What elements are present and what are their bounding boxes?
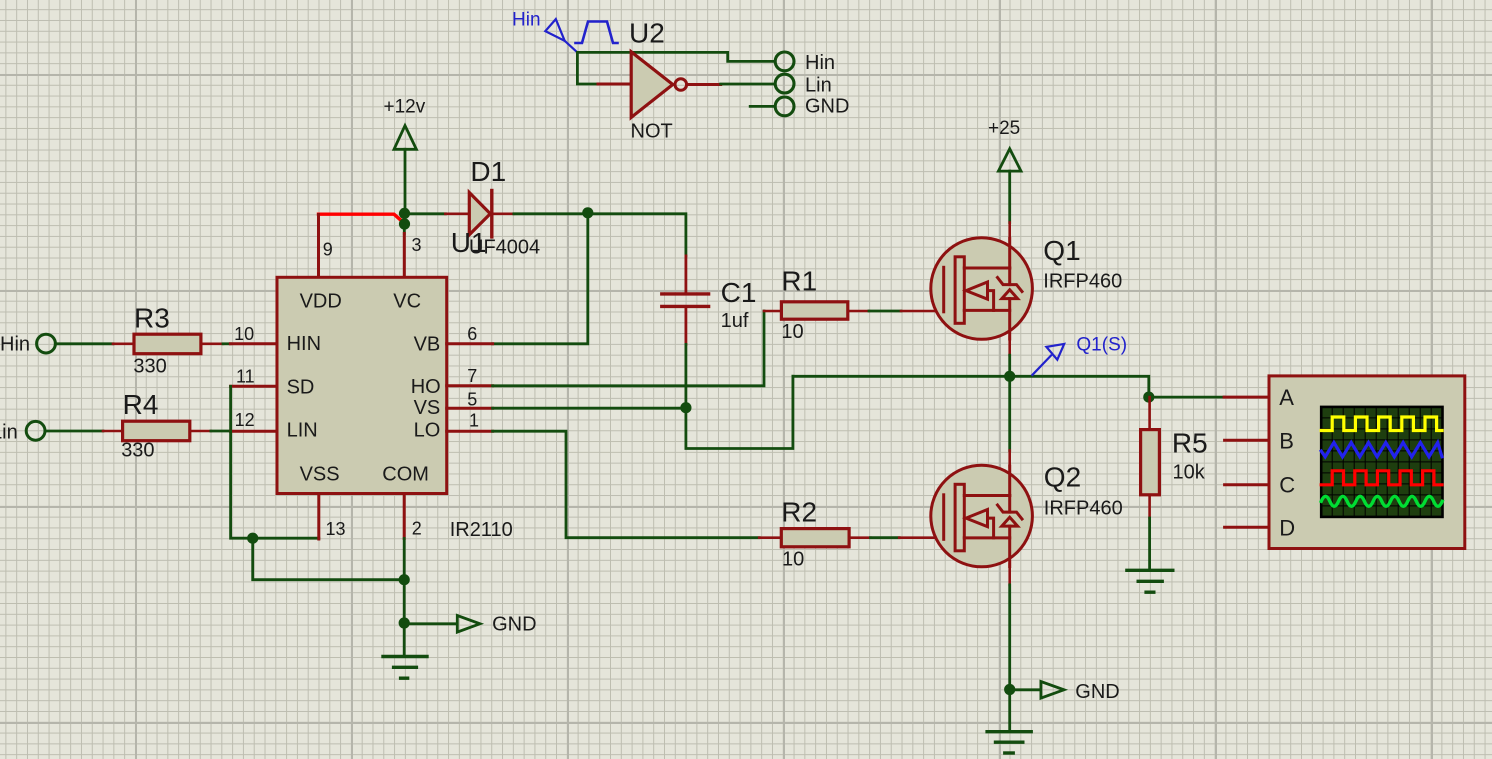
oscilloscope body: [1269, 376, 1465, 549]
junction dot: [399, 218, 410, 229]
wire: R2 to Q2 gate: [849, 536, 944, 539]
resistor R2: [781, 529, 849, 547]
wire: +25 rail to Q1 drain: [1008, 171, 1011, 240]
junction dot: [582, 207, 593, 218]
svg-text:1uf: 1uf: [721, 310, 749, 332]
capacitor C1: [662, 256, 709, 345]
wire: VSS net to ground net: [253, 538, 405, 580]
svg-text:HIN: HIN: [287, 333, 321, 355]
terminal Hin (left): [37, 334, 56, 353]
resistor R3: [134, 334, 201, 354]
wire: mid node horizontal (Q1 source / Q2 drain): [793, 376, 1149, 397]
junction dot: [1143, 392, 1154, 403]
pin 12 (LIN): [231, 430, 277, 433]
svg-text:10: 10: [782, 549, 804, 571]
wire: VDD red wire: [319, 214, 402, 221]
pin 3 (VC): [403, 224, 406, 277]
pin 2 (COM): [403, 494, 406, 539]
svg-text:R1: R1: [781, 266, 817, 297]
wire: C1 bottom to VS: [685, 344, 688, 407]
svg-text:R5: R5: [1172, 428, 1208, 459]
scope pin B: [1225, 439, 1269, 442]
wire: node to R5 top: [1148, 397, 1151, 430]
wire: R2 left lead: [759, 536, 781, 539]
wire: LO to R2: [493, 431, 760, 538]
svg-text:13: 13: [326, 519, 346, 539]
input pulse waveform symbol: [576, 22, 618, 44]
waveform channel D (green sine wave): [1321, 496, 1442, 506]
pin 13 (VSS): [317, 494, 320, 539]
wire: HO to R1: [493, 311, 764, 386]
svg-text:3: 3: [412, 235, 422, 255]
wire: LIN junction down to VSS net: [231, 431, 253, 538]
svg-text:SD: SD: [287, 377, 315, 399]
scope pin C: [1225, 483, 1269, 486]
GND arrow symbol (right): [1041, 682, 1064, 699]
svg-text:GND: GND: [1075, 681, 1119, 703]
IC U1 IR2110 body: [277, 277, 447, 493]
wire: Q2 source down: [1008, 565, 1011, 690]
waveform channel B (blue triangle wave): [1321, 443, 1442, 457]
svg-text:VS: VS: [414, 397, 441, 419]
junction dot: [247, 533, 258, 544]
resistor R4: [123, 421, 190, 441]
resistor R1: [781, 302, 847, 319]
wire: GND arrow stub (right): [1010, 688, 1040, 691]
svg-text:11: 11: [236, 367, 255, 387]
svg-text:UF4004: UF4004: [469, 236, 540, 258]
GND arrow symbol (left): [457, 616, 480, 633]
scope pin A: [1224, 396, 1269, 399]
svg-text:R4: R4: [123, 389, 159, 420]
wire: ground net down: [403, 580, 406, 656]
wire: R1 to Q1 gate: [848, 310, 944, 313]
wire: D1 cathode to VB node: [493, 213, 588, 216]
svg-text:R3: R3: [134, 302, 170, 333]
wire: R1 left lead: [764, 310, 781, 313]
wire: GND arrow stub: [404, 622, 456, 625]
junction dot: [399, 574, 410, 585]
pin 9 (VDD): [317, 215, 320, 278]
terminal Lin (left): [26, 421, 45, 440]
svg-text:U2: U2: [629, 18, 665, 49]
svg-text:IRFP460: IRFP460: [1044, 498, 1123, 520]
wire: Hin to R3: [55, 342, 134, 345]
wire: R3 to HIN pin: [201, 342, 231, 345]
svg-text:9: 9: [323, 240, 333, 260]
pin 5 (VS): [447, 407, 493, 410]
resistor R5: [1141, 430, 1160, 495]
power +25 symbol: [998, 149, 1021, 171]
scope pin D: [1225, 526, 1269, 529]
svg-text:10: 10: [781, 321, 803, 343]
svg-text:5: 5: [467, 390, 477, 410]
terminal Lin (top right): [775, 74, 794, 93]
svg-text:D: D: [1279, 515, 1295, 540]
transistor Q2 IRFP460: [931, 465, 1033, 567]
svg-text:2: 2: [412, 519, 422, 539]
svg-text:Hin: Hin: [0, 334, 30, 356]
svg-text:VSS: VSS: [300, 464, 340, 486]
wire: NOT gate input net: [577, 52, 774, 83]
wire: node to scope A: [1149, 396, 1224, 399]
wire: +12v node to D1 anode: [405, 212, 469, 215]
svg-text:COM: COM: [382, 464, 429, 486]
svg-text:HO: HO: [411, 376, 441, 398]
svg-text:Hin: Hin: [805, 52, 835, 74]
svg-text:GND: GND: [492, 614, 536, 636]
svg-text:6: 6: [467, 324, 477, 344]
svg-text:VDD: VDD: [300, 291, 342, 313]
pin 6 (VB): [447, 342, 493, 345]
scope screen: [1321, 407, 1442, 517]
svg-text:VC: VC: [393, 291, 421, 313]
svg-text:Q1(S): Q1(S): [1076, 335, 1127, 356]
pin 7 (HO): [447, 384, 493, 387]
wire: node to C1 top: [588, 214, 686, 256]
junction dot: [1004, 684, 1015, 695]
svg-text:Hin: Hin: [512, 10, 541, 31]
wire: +12v rail down: [404, 149, 407, 214]
wire: VB node vertical: [493, 213, 588, 344]
svg-text:LO: LO: [414, 420, 441, 442]
pin 11 (SD): [231, 385, 277, 388]
pin 10 (HIN): [230, 342, 277, 345]
wire: down to ground symbol: [1008, 690, 1011, 731]
ground symbol (under R5): [1127, 570, 1173, 592]
svg-text:C: C: [1279, 473, 1295, 498]
wire: R4 to LIN pin: [190, 430, 231, 433]
svg-text:1: 1: [469, 410, 479, 430]
svg-text:VB: VB: [414, 334, 441, 356]
svg-text:IR2110: IR2110: [450, 519, 513, 541]
svg-text:GND: GND: [805, 96, 849, 118]
svg-text:+12v: +12v: [384, 96, 426, 117]
wire: mid node down to Q2 drain: [1008, 376, 1011, 467]
junction dot: [399, 208, 410, 219]
wire: NOT output to Lin terminal: [687, 83, 775, 87]
wire: R5 bottom to ground: [1148, 495, 1151, 569]
svg-text:10: 10: [234, 324, 254, 344]
voltage probe arrow (Hin): [545, 19, 577, 52]
wire: VS jog to mid node: [686, 376, 793, 448]
waveform channel C (red square wave): [1321, 471, 1442, 485]
ground symbol (left): [383, 657, 427, 679]
svg-text:R2: R2: [781, 497, 817, 528]
svg-text:C1: C1: [721, 277, 757, 308]
svg-text:LIN: LIN: [287, 420, 318, 442]
svg-text:A: A: [1279, 385, 1294, 410]
svg-text:B: B: [1279, 428, 1294, 453]
ground symbol (under Q2): [987, 732, 1031, 753]
svg-text:NOT: NOT: [631, 121, 673, 143]
svg-text:Q1: Q1: [1043, 235, 1080, 266]
wire: SD to LIN junction: [229, 386, 232, 431]
wire: VS pin to C1 junction: [493, 407, 686, 410]
svg-text:Q2: Q2: [1044, 462, 1081, 493]
diode D1 UF4004: [469, 191, 492, 237]
svg-text:330: 330: [121, 439, 154, 461]
svg-text:7: 7: [467, 366, 477, 386]
svg-text:330: 330: [133, 356, 166, 378]
waveform channel A (yellow square wave): [1321, 417, 1442, 431]
transistor Q1 IRFP460: [931, 238, 1033, 340]
wire: Lin to R4: [45, 430, 123, 433]
wire: to VSS pin: [253, 537, 319, 540]
pin 1 (LO): [447, 430, 493, 433]
junction dot: [399, 617, 410, 628]
junction dot: [1004, 371, 1015, 382]
voltage probe Q1(S): [1032, 344, 1064, 375]
svg-text:10k: 10k: [1173, 462, 1206, 484]
power +12v symbol: [394, 126, 416, 150]
svg-text:12: 12: [235, 410, 255, 430]
terminal GND (top right): [775, 97, 794, 116]
svg-text:D1: D1: [470, 156, 506, 187]
wire: COM down to ground net: [403, 539, 406, 580]
NOT gate U2: [631, 52, 686, 118]
svg-text:Lin: Lin: [0, 422, 18, 444]
svg-text:IRFP460: IRFP460: [1043, 271, 1122, 293]
terminal Hin (top right): [775, 52, 794, 71]
junction dot: [680, 402, 691, 413]
wire: GND terminal stub: [750, 105, 774, 108]
svg-text:Lin: Lin: [805, 75, 832, 97]
wire: gate input stub: [577, 83, 631, 86]
svg-text:+25: +25: [988, 118, 1020, 139]
wire: Q1 source down to mid node: [1008, 337, 1011, 376]
